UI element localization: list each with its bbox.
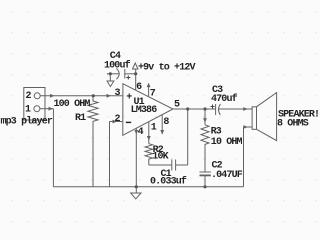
pin 7 stub [148, 87, 150, 97]
wire ground bus [53, 186, 243, 188]
capacitor C4 plus sign [126, 76, 130, 80]
svg-text:10K: 10K [152, 152, 168, 163]
svg-text:6: 6 [136, 82, 142, 93]
arrow pin 4 down [134, 130, 138, 135]
arrow pin 1 down [147, 136, 151, 141]
resistor R3 [201, 125, 209, 172]
svg-text:100 OHM: 100 OHM [54, 99, 91, 110]
node R1 top [92, 94, 95, 97]
node V+ pin6 [134, 72, 137, 75]
svg-text:R1: R1 [75, 113, 86, 124]
connector pin 2 circle [34, 93, 40, 99]
wire C1 right [176, 164, 188, 166]
speaker driver rect [252, 107, 256, 130]
arrow J1 pin1 [49, 107, 54, 111]
svg-text:8: 8 [163, 117, 169, 128]
arrowheads [49, 83, 248, 141]
wire R2 to C1 [149, 164, 172, 166]
node C2 bus [203, 185, 206, 188]
wire J1 pin1 vertical [52, 109, 54, 187]
svg-text:2: 2 [115, 114, 121, 125]
capacitor C1 plates [171, 160, 173, 171]
pin 8 stub [161, 114, 163, 134]
arrow speaker top [243, 107, 248, 111]
svg-text:+9v to +12V: +9v to +12V [138, 62, 196, 73]
node pin4 bus [135, 185, 138, 188]
resistor R3 top lead [204, 109, 206, 125]
pin 1 wire to R2 [148, 122, 150, 144]
capacitor C4 left wire [107, 73, 120, 75]
svg-text:mp3 player: mp3 player [1, 116, 53, 128]
junction dots [92, 72, 207, 188]
capacitor C4 straight plate [124, 69, 126, 79]
svg-text:5: 5 [174, 99, 180, 110]
capacitor C2 plates [200, 171, 211, 173]
connector J1 box [24, 88, 45, 121]
ground symbol main [131, 193, 141, 199]
label minus input [126, 121, 131, 123]
node R3 output [203, 107, 206, 110]
svg-text:0.033uf: 0.033uf [150, 176, 187, 188]
wire input top (J1 pin2 to U1 pin3) [40, 95, 122, 97]
pin 4 wire down [135, 128, 137, 187]
connector pin 1 circle [34, 106, 40, 112]
wire J1 pin1 horizontal [40, 108, 54, 110]
arrow pin 3 [107, 94, 112, 98]
power V+ stem [135, 69, 137, 90]
arrow J1 pin2 [50, 94, 55, 98]
svg-text:2: 2 [26, 91, 32, 102]
svg-text:100uf: 100uf [104, 59, 131, 71]
svg-text:1: 1 [151, 123, 157, 134]
ground stem main [135, 187, 137, 193]
wire speaker return down [243, 127, 245, 187]
speaker cone [257, 93, 277, 141]
svg-text:1: 1 [25, 105, 31, 116]
wire pin2 down [109, 122, 111, 187]
wire speaker return horizontal [244, 126, 253, 128]
svg-text:3: 3 [115, 88, 121, 99]
arrow pin 8 down [160, 130, 164, 135]
wire pin2 stub [110, 121, 123, 123]
arrow speaker bottom [243, 125, 248, 129]
capacitor C3 curved plate [219, 104, 221, 115]
svg-text:LM386: LM386 [131, 105, 158, 116]
capacitor C4 curved plate [116, 68, 119, 79]
svg-text:4: 4 [138, 127, 144, 138]
wire output (pin5) [173, 108, 216, 110]
arrow pin 2 [113, 120, 118, 124]
svg-text:7: 7 [150, 89, 156, 100]
arrow R3 down [203, 118, 207, 123]
ground symbol at C4 [107, 81, 114, 87]
capacitor C3 plus sign [126, 76, 214, 109]
arrow pin 7 up [147, 83, 151, 88]
wire C2 bottom [204, 176, 206, 187]
capacitor C3 straight plate [215, 104, 217, 115]
op-amp U1 triangle [123, 84, 173, 136]
resistor R2 [145, 144, 152, 165]
capacitor C4 right wire [125, 73, 136, 75]
node C1 output [186, 107, 189, 110]
svg-text:+: + [126, 92, 132, 103]
svg-text:470uf: 470uf [211, 93, 238, 105]
resistor R1 [88, 96, 98, 187]
wire C3 to speaker [218, 108, 252, 110]
svg-text:.047UF: .047UF [211, 170, 243, 181]
svg-text:10 OHM: 10 OHM [211, 137, 243, 148]
power V+ arrow [133, 63, 139, 69]
svg-text:8 OHMS: 8 OHMS [277, 118, 309, 129]
node C4 ground [109, 72, 112, 75]
wire C1 up to output [187, 109, 189, 165]
ground stem at C4 [109, 74, 111, 81]
